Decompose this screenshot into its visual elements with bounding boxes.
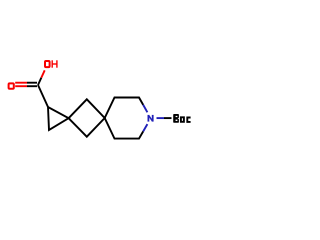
bond N1-Boc blue half: [157, 117, 165, 119]
atom O2 letter O of OH: [45, 61, 50, 67]
bond C7=O1 double (carbonyl) black half: [27, 83, 37, 87]
bond C7-C1 carboxyl to cyclopropane: [38, 85, 48, 107]
bond N1-Boc black half: [164, 117, 172, 119]
atom N1 (blue letter N): [148, 115, 152, 122]
cyclopropane ring C1-C2-C3: [48, 107, 69, 130]
atom O1 carbonyl oxygen letter O: [9, 83, 14, 88]
bond C-N upper blue half: [143, 105, 147, 112]
label Boc letter B: [173, 114, 179, 123]
bond C7-O2 hydroxyl red half: [41, 70, 44, 77]
piperidine ring carbon frame: [105, 98, 144, 139]
label Boc letter c: [187, 118, 190, 122]
label Boc letter o: [181, 117, 184, 122]
bond C7=O1 double (carbonyl) red half: [15, 83, 27, 87]
atom O2 letter H of OH: [52, 60, 57, 67]
cyclobutane ring spiro C3/C6: [69, 99, 105, 136]
bond C-N lower blue half: [143, 124, 147, 131]
bond C7-O2 hydroxyl black half: [38, 78, 41, 85]
